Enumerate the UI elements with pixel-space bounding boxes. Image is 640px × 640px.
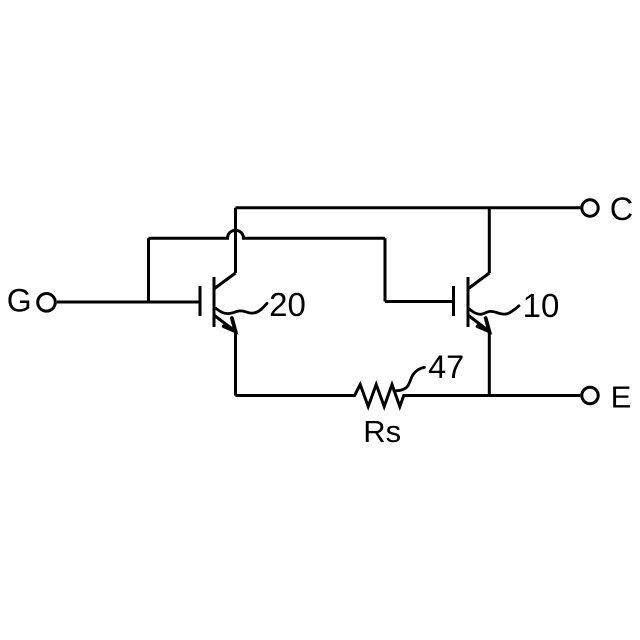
svg-text:E: E — [611, 380, 632, 415]
svg-text:C: C — [610, 191, 633, 227]
svg-text:20: 20 — [269, 286, 306, 323]
svg-text:10: 10 — [523, 287, 560, 324]
svg-text:Rs: Rs — [363, 414, 401, 449]
svg-text:47: 47 — [428, 349, 464, 385]
svg-text:G: G — [7, 283, 32, 319]
